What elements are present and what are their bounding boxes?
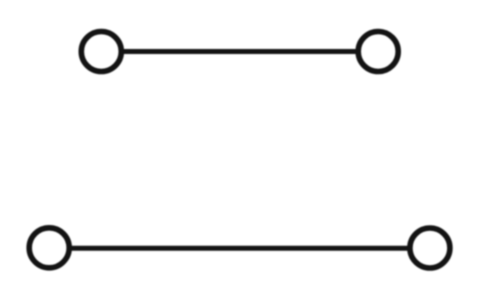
terminal circle 2 (upper level, right connection point) — [358, 32, 398, 72]
terminal circle 1 (upper level, left connection point) — [81, 32, 121, 72]
terminal circle 4 (lower level, right connection point) — [410, 228, 450, 268]
terminal circle 3 (lower level, left connection point) — [29, 228, 69, 268]
wire (upper level conductor) — [124, 49, 358, 54]
wire (lower level conductor) — [72, 246, 409, 251]
